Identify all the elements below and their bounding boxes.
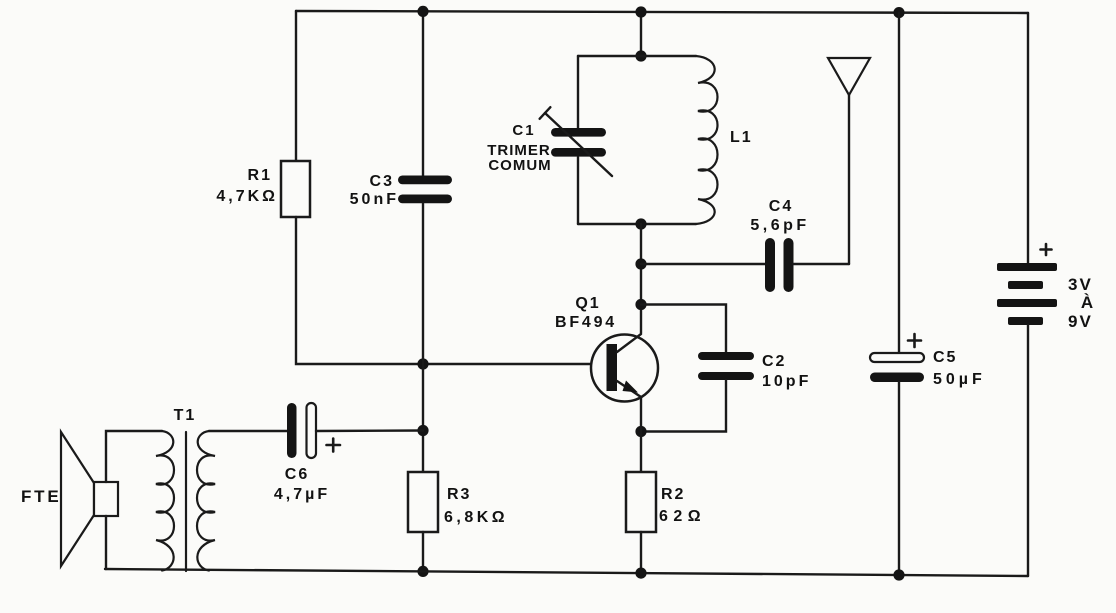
- wire C2 loop top: [641, 305, 726, 353]
- wire C3 to R3 column: [422, 204, 424, 473]
- capacitor C6 4,7µF electrolytic: [274, 403, 340, 503]
- inductor L1: [696, 56, 753, 224]
- transistor Q1 BF494: [555, 295, 658, 402]
- wire speaker top lead: [106, 431, 162, 482]
- wire R1 lower and base wire: [296, 217, 605, 364]
- svg-text:4,7KΩ: 4,7KΩ: [216, 188, 278, 205]
- svg-text:BF494: BF494: [555, 314, 617, 331]
- wire C4 left: [641, 263, 765, 265]
- svg-text:R1: R1: [248, 167, 272, 184]
- wire battery top: [1027, 13, 1029, 263]
- wire C5 upper: [898, 13, 900, 353]
- node C6 R3 junction: [417, 425, 428, 436]
- svg-text:Q1: Q1: [575, 295, 600, 312]
- svg-text:10pF: 10pF: [762, 373, 811, 390]
- svg-text:R2: R2: [661, 486, 685, 503]
- svg-text:COMUM: COMUM: [488, 157, 551, 174]
- wire top supply rail: [296, 11, 1028, 13]
- wire R3 lower: [422, 532, 424, 571]
- svg-text:9V: 9V: [1068, 312, 1093, 331]
- wire C3 upper: [422, 11, 424, 176]
- transformer T1: [156, 407, 215, 571]
- svg-text:50µF: 50µF: [933, 371, 986, 388]
- node tank top: [635, 50, 646, 61]
- wire C2 loop bottom: [641, 380, 726, 432]
- capacitor C2 10pF: [698, 352, 811, 390]
- wire collector column: [640, 224, 642, 333]
- svg-text:À: À: [1081, 293, 1093, 312]
- svg-text:5,6pF: 5,6pF: [750, 217, 809, 234]
- wire R2 lower: [640, 532, 642, 573]
- svg-text:FTE: FTE: [21, 487, 62, 506]
- node top rail C5 column: [893, 7, 904, 18]
- resistor R1 4,7KΩ: [216, 161, 310, 217]
- battery B1 3V to 9V: [997, 244, 1093, 331]
- svg-text:C5: C5: [933, 349, 957, 366]
- wire C1 upper: [577, 56, 579, 128]
- node emitter junction: [635, 426, 646, 437]
- node bottom rail R3: [417, 566, 428, 577]
- capacitor C5 50µF electrolytic: [870, 334, 986, 388]
- svg-text:R3: R3: [447, 486, 471, 503]
- wire C5 lower: [898, 382, 900, 575]
- svg-text:4,7µF: 4,7µF: [274, 486, 330, 503]
- antenna: [828, 58, 870, 264]
- wire speaker bottom lead: [105, 516, 107, 569]
- resistor R3 6,8KΩ: [408, 472, 508, 532]
- wire emitter to R2: [640, 397, 642, 472]
- node top rail C3 column: [417, 6, 428, 17]
- svg-text:62Ω: 62Ω: [659, 508, 706, 525]
- node tank bottom: [635, 218, 646, 229]
- wire tank top: [578, 55, 696, 57]
- wire C6 to R3 node: [316, 429, 423, 432]
- svg-text:C3: C3: [370, 173, 394, 190]
- svg-text:C2: C2: [762, 353, 786, 370]
- wire secondary to C6: [209, 430, 287, 432]
- resistor R2 62Ω: [626, 472, 706, 532]
- wire R1 branch upper: [295, 11, 297, 161]
- svg-text:C4: C4: [769, 198, 793, 215]
- node C4 junction: [635, 258, 646, 269]
- svg-text:C6: C6: [285, 466, 309, 483]
- capacitor C4 5,6pF: [750, 198, 809, 292]
- wire tank bottom: [578, 223, 696, 225]
- svg-text:C1: C1: [512, 122, 535, 139]
- svg-text:6,8KΩ: 6,8KΩ: [444, 509, 508, 526]
- capacitor C3 50nF: [350, 173, 452, 208]
- wire bottom rail: [105, 569, 1028, 576]
- node base C3 cross: [417, 358, 428, 369]
- trimmer capacitor C1 TRIMER COMUM: [487, 107, 612, 176]
- wire C1 lower: [577, 157, 579, 224]
- node bottom rail C5: [893, 569, 904, 580]
- wire C4 right to antenna: [794, 263, 850, 265]
- wire battery bottom: [1027, 325, 1029, 576]
- svg-text:L1: L1: [730, 129, 753, 146]
- wire tank stub from rail: [640, 12, 642, 56]
- svg-text:3V: 3V: [1068, 275, 1093, 294]
- node bottom rail R2: [635, 568, 646, 579]
- svg-text:T1: T1: [174, 407, 197, 424]
- svg-text:50nF: 50nF: [350, 191, 399, 208]
- node top rail tank stub: [635, 6, 646, 17]
- node C2 top junction: [635, 299, 646, 310]
- speaker FTE: [21, 432, 118, 566]
